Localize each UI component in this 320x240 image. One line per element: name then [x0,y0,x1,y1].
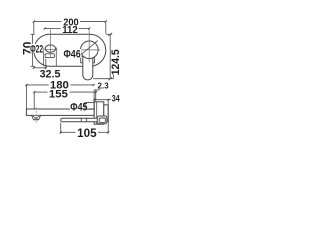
svg-text:155: 155 [49,88,68,100]
svg-text:124.5: 124.5 [110,49,122,75]
svg-text:Φ46: Φ46 [64,49,81,61]
svg-text:2.3: 2.3 [98,81,110,90]
svg-text:Φ22: Φ22 [30,43,43,55]
svg-text:112: 112 [62,25,78,36]
svg-text:34: 34 [112,93,120,103]
svg-text:105: 105 [77,128,97,140]
